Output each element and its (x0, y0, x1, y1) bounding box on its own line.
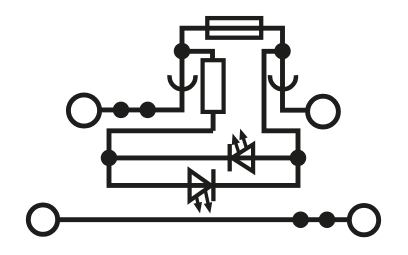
wire: upper rail (109, 155, 298, 160)
resistor R1 body (203, 60, 224, 112)
disconnect socket right (270, 75, 296, 89)
junction node A (174, 43, 191, 60)
clamp dot left-2 (139, 102, 156, 119)
LED D2 arrow 1 (191, 189, 204, 214)
wire: node B down through disconnect to right terminal (283, 51, 308, 110)
clamp dot bottom-2 (319, 211, 336, 228)
LED D1 arrow 2 (236, 127, 252, 152)
wire: fuse loop from node A over fuse to node B (182, 28, 283, 51)
terminal circle top-left (68, 95, 99, 126)
LED D1 triangle (points left) (232, 144, 253, 171)
terminal circle bottom-left (28, 205, 57, 234)
wire: left drop, lower rail, right riser, detour to node B (109, 51, 298, 185)
wire: resistor bottom stub (211, 111, 216, 131)
terminal circle bottom-right (349, 205, 378, 234)
junction upper rail right (290, 150, 307, 167)
wire: bottom feed-through rail (57, 217, 350, 222)
clamp dot bottom-1 (292, 211, 309, 228)
junction upper rail left (101, 150, 118, 167)
clamp dot left-1 (113, 102, 130, 119)
fuse F1 body (207, 18, 261, 38)
LED D2 cathode bar (211, 169, 215, 201)
junction node B (274, 43, 291, 60)
wire: node A down through disconnect to left terminal (100, 51, 182, 110)
wire: node A to resistor top (181, 51, 213, 62)
LED D1 arrow 1 (228, 132, 244, 157)
LED D2 triangle (points right) (190, 170, 212, 200)
LED D2 arrow 2 (201, 189, 214, 214)
LED D1 cathode bar (228, 144, 232, 171)
terminal circle top-right (308, 96, 339, 127)
disconnect socket left (170, 75, 196, 89)
